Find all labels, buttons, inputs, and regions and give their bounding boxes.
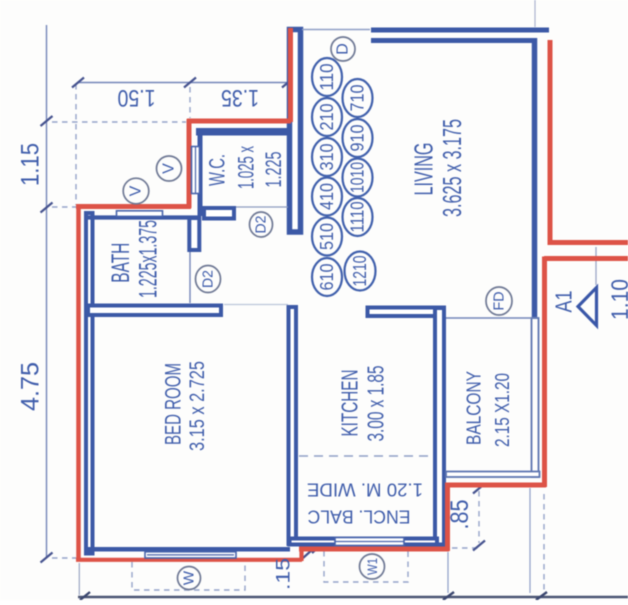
svg-text:3.00 x 1.85: 3.00 x 1.85 [363,366,389,442]
svg-text:ENCL. BALC: ENCL. BALC [308,507,411,527]
dashed line vertical x76 [75,84,77,205]
dashed line horizontal y558 bottom left [52,557,76,559]
tick left dim y121 [41,116,53,126]
svg-text:410: 410 [317,183,337,210]
circle D2 wc door [250,212,273,237]
svg-text:KITCHEN: KITCHEN [337,370,363,437]
svg-text:710: 710 [348,85,368,112]
svg-text:1.50: 1.50 [118,84,156,111]
svg-text:2.15 X1.20: 2.15 X1.20 [492,373,514,447]
dashed line vertical x190 [189,87,191,118]
oval 610 [312,258,342,296]
vent wc inner line [195,147,197,193]
svg-text:D2: D2 [200,270,217,288]
tick dim 85 bottom [473,541,485,551]
wall bath left outer [86,213,93,554]
tick left dim y557 [41,553,53,563]
dashed horizontal y548 [452,547,478,549]
svg-text:BALCONY: BALCONY [464,371,486,445]
circle D entry door [331,37,355,61]
oval 710 [343,79,373,117]
svg-text:W.C.: W.C. [205,154,230,186]
dashed vertical x544 bottom right [543,494,545,592]
svg-text:FD: FD [491,291,508,310]
wall living left [290,30,301,233]
vent wc left wall [192,147,200,194]
tick dim 85 top [473,484,485,494]
red outline living left [288,28,293,122]
wall living top outer line [371,28,549,33]
tick top dim x288 [282,78,294,88]
svg-text:LIVING: LIVING [409,143,439,196]
tick jog 15 b [312,544,322,553]
svg-text:W: W [181,570,198,585]
svg-text:V: V [128,185,145,196]
dimension line top horizontal [78,82,290,84]
lintel entry door [302,29,370,31]
svg-text:3.625 x 3.175: 3.625 x 3.175 [437,119,467,217]
lintel bedroom door [224,304,288,306]
svg-text:1.35: 1.35 [221,84,259,111]
oval 1110 [343,198,373,236]
svg-text:.85: .85 [446,500,474,530]
circle FD balcony door [486,287,512,315]
svg-text:610: 610 [317,264,337,291]
svg-text:1.025 x: 1.025 x [234,146,259,189]
svg-text:1210: 1210 [350,256,370,287]
svg-text:1010: 1010 [348,162,368,193]
wall bath top single line [86,215,200,219]
red outline bath top [76,204,191,209]
red outline balcony left [445,485,450,551]
svg-text:1.20 M. WIDE: 1.20 M. WIDE [307,480,423,500]
tick top dim x190 [184,78,196,88]
section cut line A1 [595,247,597,285]
wall wc top [196,128,289,136]
red outline balcony bottom [445,483,546,488]
svg-text:310: 310 [317,144,337,171]
circle W bedroom window [178,567,201,590]
wall bedroom bottom [86,547,290,552]
dashed rect window W [132,562,245,590]
drop line below balcony [529,488,531,593]
dashed dimension vertical x479 [478,491,480,543]
svg-text:V: V [161,163,178,174]
svg-text:110: 110 [317,64,337,91]
oval 410 [312,178,342,216]
wall wc bottom band [204,208,234,219]
circle D2 bath door [196,266,221,293]
oval 1210 [345,252,376,291]
dimension line left vertical [46,25,48,558]
svg-text:A1: A1 [551,291,577,313]
svg-text:210: 210 [317,104,337,131]
svg-text:4.75: 4.75 [17,362,45,411]
svg-text:D2: D2 [253,216,270,234]
oval 910 [343,119,373,157]
svg-text:1110: 1110 [348,202,368,233]
red outline right [542,257,547,488]
red outline encl balc bottom [299,547,449,552]
oval 210 [312,98,342,136]
svg-text:BED ROOM: BED ROOM [161,363,186,445]
oval 510 [312,218,342,256]
red outline left outer [76,205,81,562]
dashed rect window W1 [324,551,408,582]
section marker A1 triangle [578,288,597,326]
red outline bedroom bottom [76,558,302,562]
wall hall bedroom top [88,306,221,316]
wall living top inner line [371,38,535,43]
red outline wc top [187,119,291,124]
drop line bottom left [78,563,80,595]
tick bottom x90 [80,592,90,600]
tick top dim x78 [72,78,84,88]
tick bottom x541 [536,592,547,600]
circle V bath vent [123,178,149,204]
window bedroom inner line [147,554,234,556]
wall kitchen right [435,308,444,545]
window W1 inner line [335,541,404,543]
wall wc left upper [198,128,203,216]
red outline jog [299,547,303,561]
svg-text:910: 910 [348,125,368,152]
red outline wc left [187,119,192,208]
oval 110 [312,58,342,96]
window bath top [117,211,163,217]
drop line below encl balc [447,552,449,593]
wall kitchen left [289,307,297,544]
wall divider lower box [189,218,199,250]
red outline stub right lower [544,256,628,261]
tick jog 15 a [303,549,313,558]
wall encl balc bottom [290,539,438,545]
svg-text:1.10: 1.10 [607,279,628,320]
faint line top right [534,0,536,27]
dashed line horizontal y122 [52,121,186,123]
svg-text:3.15 x 2.725: 3.15 x 2.725 [186,361,209,451]
lintel wc door [236,206,288,208]
oval 1010 [343,159,373,197]
svg-text:D: D [335,43,352,55]
svg-text:.15: .15 [274,558,295,590]
dashed line horizontal y207 [52,206,76,208]
svg-text:W1: W1 [364,558,380,575]
tick bottom x449 [443,592,454,600]
dashed separator kitchen encl balc [299,455,432,457]
svg-text:510: 510 [317,223,337,250]
window W1 encl balc [335,538,404,546]
window bedroom bottom [145,552,236,558]
red outline stub right upper [550,40,628,243]
circle V wc vent [157,156,182,181]
wall balcony bottom thin [446,472,540,478]
wall balcony right thin [532,318,539,477]
wall living right [532,38,538,317]
circle W1 encl balc window [360,554,385,579]
wall living bottom [368,308,445,317]
svg-text:1.225x1.375: 1.225x1.375 [134,220,162,298]
balcony sliding door line [446,317,532,319]
door leaf bath [189,252,191,303]
svg-text:1.15: 1.15 [17,143,45,186]
tick left dim y207 [41,203,53,213]
bottom dimension line dark [78,596,628,598]
oval 310 [312,138,342,176]
svg-text:1.225: 1.225 [261,152,286,188]
svg-text:BATH: BATH [107,243,135,283]
